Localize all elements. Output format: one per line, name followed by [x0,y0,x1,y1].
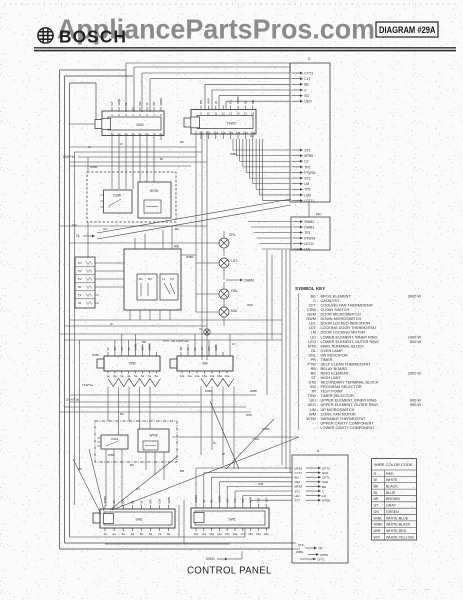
svg-text:W/BL: W/BL [374,516,383,520]
relay board RB [124,245,181,321]
label CSW2a note [163,339,189,343]
svg-text:COOLING FAN THERMOSTAT: COOLING FAN THERMOSTAT [321,304,374,308]
svg-text:W: W [88,145,91,149]
svg-text:BLACK: BLACK [386,484,398,488]
svg-text:UPPER CAVITY COMPONENT: UPPER CAVITY COMPONENT [321,421,375,425]
wire SW top drops [188,334,230,352]
svg-text:WHITE-RED: WHITE-RED [386,529,407,533]
svg-text:14: 14 [237,112,240,116]
svg-text:GY: GY [374,504,380,508]
svg-text:SG: SG [304,94,309,98]
svg-text:W/BK: W/BK [262,427,270,431]
svg-text:BL: BL [244,100,248,104]
svg-text:LEO :: LEO : [308,340,318,344]
svg-text:ST3: ST3 [304,177,310,181]
contacts under SW [201,379,234,387]
svg-text:SYMBOL KEY: SYMBOL KEY [295,286,325,291]
svg-text:R: R [374,472,377,476]
svg-text:BROWN: BROWN [386,497,400,501]
svg-text:GY: GY [250,134,254,138]
svg-text:1a: 1a [103,532,107,536]
svg-text:GY: GY [229,100,233,104]
svg-text:DOOR LOCKED INDICATOR: DOOR LOCKED INDICATOR [321,322,371,326]
svg-text:WTW: WTW [150,434,158,438]
svg-text:W: W [120,142,123,146]
svg-text:PTW :: PTW : [307,362,318,366]
svg-text:15: 15 [244,112,247,116]
svg-text:2a: 2a [113,374,117,378]
wire lamp feeds [70,131,220,312]
svg-text:6a: 6a [141,374,145,378]
wire bundle SW1 to lower right box [196,468,292,504]
svg-text:SELF CLEAN THERMOSTAT: SELF CLEAN THERMOSTAT [321,362,371,366]
svg-text:DAL: DAL [231,309,238,313]
thermostat WTW upper [138,182,171,218]
svg-text:13a: 13a [202,374,207,378]
svg-text:CONTROL PANEL: CONTROL PANEL [187,566,272,577]
svg-text:DSM :: DSM : [307,313,318,317]
svg-text:GN: GN [78,467,82,471]
svg-text:R2: R2 [148,277,152,281]
contacts under TSW [108,379,161,387]
svg-text:SW1: SW1 [228,518,235,522]
svg-text:R1: R1 [139,277,143,281]
svg-text:RE2: RE2 [295,480,301,484]
svg-text:BE: BE [304,83,309,87]
svg-text:MTB5: MTB5 [322,499,331,503]
svg-text:ST1: ST1 [295,489,301,493]
switch CSW upper [100,190,132,213]
svg-text:LDT :: LDT : [309,326,318,330]
svg-text:BK: BK [374,484,379,488]
svg-text:GY: GY [232,342,236,346]
terminal strip left [75,257,99,308]
lamp CRL [219,231,236,256]
svg-text:OL: OL [76,234,80,238]
svg-text:TSW :: TSW : [307,394,318,398]
svg-text:DWM3: DWM3 [244,278,254,282]
svg-text:L1: L1 [162,277,166,281]
svg-text:BK: BK [180,140,184,144]
svg-text:C2: C2 [304,160,308,164]
svg-text:BR: BR [374,497,379,501]
thermostat WTW lower [138,429,169,452]
svg-text:1400 W: 1400 W [408,335,422,339]
wire bottom bus [60,543,294,549]
svg-text:DWM :: DWM : [306,317,318,321]
svg-text:LM7: LM7 [304,247,311,251]
watermark AppliancePartsPros.com [57,14,375,45]
svg-text:GRAY: GRAY [386,504,397,508]
selector TSW [97,343,160,378]
svg-text:ST2: ST2 [298,543,304,547]
caption CONTROL PANEL [187,566,272,577]
svg-text:W/BK: W/BK [103,496,107,504]
svg-text:W/BK: W/BK [205,389,212,393]
svg-text:BL: BL [130,499,134,503]
svg-text:15a: 15a [217,374,222,378]
svg-text:TP2: TP2 [304,165,310,169]
svg-text:RED: RED [386,472,394,476]
svg-text:W/BK: W/BK [374,523,384,527]
pin numbers SW2 top [111,113,162,117]
svg-text:- - :: - - : [312,421,318,425]
svg-text:BK: BK [130,463,134,467]
svg-text:BE: BE [322,485,326,489]
svg-text:P2: P2 [78,277,82,281]
wire left bus L3 [69,83,71,537]
svg-text:MTB3: MTB3 [295,485,303,489]
svg-text:5a: 5a [134,374,138,378]
svg-text:CV: CV [170,277,174,281]
selector SW [170,344,233,378]
svg-text:GN: GN [158,499,162,504]
BOSCH wordmark [59,27,127,47]
svg-text:W/BK: W/BK [186,255,194,259]
svg-text:LOCKING DOOR THERMOSTAT: LOCKING DOOR THERMOSTAT [321,326,378,330]
connector SW1 right half [191,495,269,536]
svg-text:W: W [222,452,225,456]
svg-text:W: W [214,101,218,104]
svg-text:5a: 5a [140,532,144,536]
svg-text:GN: GN [103,227,108,231]
lamp OL small [199,327,210,335]
svg-text:12: 12 [222,112,225,116]
svg-text:PTW34: PTW34 [304,236,315,240]
svg-text:7a: 7a [158,532,162,536]
svg-text:HIGH LIMIT: HIGH LIMIT [321,376,342,380]
node column upper cavity box [290,57,330,202]
svg-text:BK: BK [112,499,116,503]
svg-text:14a: 14a [210,374,215,378]
svg-text:TIMER: TIMER [321,358,333,362]
svg-text:W/R: W/R [246,413,253,417]
svg-text:WHITE-YELLOW: WHITE-YELLOW [386,535,414,539]
svg-text:SW1: SW1 [135,518,142,522]
corner scan marks [398,587,430,592]
wire between bottom connectors [179,500,184,543]
svg-text:BL: BL [124,101,128,105]
svg-text:2500 W: 2500 W [408,372,422,376]
svg-text:RB :: RB : [311,367,318,371]
svg-text:LDT11: LDT11 [304,242,314,246]
svg-text:STB :: STB : [309,381,319,385]
svg-text:GY: GY [110,101,114,105]
svg-text:CRL: CRL [229,233,236,237]
pin numbers TSW2 top [200,112,255,116]
svg-text:16a: 16a [225,374,230,378]
svg-text:WM :: WM : [309,412,318,416]
svg-text:GREEN: GREEN [386,510,399,514]
svg-text:BL: BL [160,157,164,161]
svg-text:DOOR LOCKING MOTOR: DOOR LOCKING MOTOR [321,331,366,335]
wire bottom feeds [70,528,301,549]
svg-text:DWM1: DWM1 [304,225,314,229]
svg-text:DOWN MICROSWITCH: DOWN MICROSWITCH [321,317,362,321]
svg-text:W/Y: W/Y [264,497,268,503]
svg-text:CFT1: CFT1 [317,557,325,561]
svg-text:3a: 3a [122,532,126,536]
svg-text:8a: 8a [167,532,171,536]
svg-text:W/BL: W/BL [117,98,121,106]
svg-text:TIMER SELECTOR: TIMER SELECTOR [321,394,355,398]
svg-text:OVEN LAMP: OVEN LAMP [321,349,344,353]
svg-text:MTB9: MTB9 [304,154,313,158]
svg-text:[2x W/T2a]: [2x W/T2a] [66,398,79,402]
svg-text:19a: 19a [256,532,261,536]
svg-text:W/BL: W/BL [167,496,171,504]
svg-text:8a: 8a [155,374,159,378]
wire SW drops [201,387,234,470]
svg-text:W: W [213,441,216,445]
svg-text:CYT3: CYT3 [304,71,313,75]
node arrows lower right inner [295,466,331,502]
svg-text:CLEAN SWITCH: CLEAN SWITCH [321,308,350,312]
svg-text:P4: P4 [78,269,82,273]
svg-text:W: W [140,501,144,504]
svg-text:SWM2: SWM2 [304,220,314,224]
wire lower cavity drops [106,449,164,506]
svg-text:RELAY BOARD: RELAY BOARD [321,367,348,371]
switch CSW lower [97,435,128,449]
header rule [34,48,456,51]
svg-text:15a: 15a [225,532,230,536]
svg-text:BK: BK [199,100,203,104]
svg-text:BK: BK [152,101,156,105]
svg-text:MTB4: MTB4 [320,553,328,557]
svg-text:7a: 7a [148,374,152,378]
svg-text:CFT1: CFT1 [322,476,330,480]
svg-text:TEST POINT: TEST POINT [321,390,344,394]
svg-text:1a: 1a [106,374,110,378]
lamp ODL [219,282,238,307]
svg-text:13: 13 [229,112,232,116]
svg-text:OF: OF [318,546,322,550]
dashed upper cavity enclosure [87,172,176,222]
svg-text:LOWER ELEMENT, OUTER RING: LOWER ELEMENT, OUTER RING [321,340,379,344]
svg-text:2a: 2a [112,532,116,536]
svg-text:VARIABLE THERMOSTAT: VARIABLE THERMOSTAT [321,417,367,421]
svg-text:W/Y: W/Y [374,535,381,539]
svg-text:3a: 3a [120,374,124,378]
wire left bus L2 [64,76,66,543]
svg-text:W: W [145,103,149,106]
svg-text:LEI :: LEI : [310,335,318,339]
svg-text:W/BK: W/BK [236,96,240,104]
svg-text:CONV. FAN MOTOR: CONV. FAN MOTOR [321,412,356,416]
svg-text:11a: 11a [194,532,199,536]
svg-text:BOSCH: BOSCH [59,27,127,47]
svg-text:ST :: ST : [311,376,318,380]
wire label DMS34 [63,155,88,159]
wire diagonal pair [76,199,291,239]
svg-text:TSW: TSW [128,362,136,366]
wire TSW drops [108,387,150,436]
svg-text:16: 16 [251,112,254,116]
svg-text:LDL :: LDL : [309,322,318,326]
svg-text:PROGRAM SELECTOR: PROGRAM SELECTOR [321,385,362,389]
svg-text:TSW*1a: TSW*1a [82,383,93,387]
svg-text:W: W [110,322,113,326]
wire label DSM1 [206,551,242,561]
svg-text:20a: 20a [264,532,269,536]
svg-text:LDT: LDT [231,259,237,263]
svg-text:S1: S1 [78,301,82,305]
wire left verticals extra [75,152,89,505]
wire SW2 to upper CSW [112,140,154,189]
svg-text:13a: 13a [209,532,214,536]
svg-text:MTB2: MTB2 [295,466,303,470]
lamp DAL [219,307,238,326]
wire bundle to mid arrows [233,139,290,201]
svg-text:WTW: WTW [150,189,159,193]
svg-text:LM :: LM : [311,331,318,335]
svg-text:CATALYST: CATALYST [321,299,340,303]
svg-text:T2: T2 [78,293,82,297]
svg-text:PR: PR [316,213,321,217]
wire mid vertical bundle A [202,131,207,360]
svg-text:4a: 4a [127,374,131,378]
svg-text:RING ELEMENT: RING ELEMENT [321,372,350,376]
svg-text:11: 11 [214,112,217,116]
svg-text:·—: ·— [424,587,430,592]
svg-text:DOOR MICROSWITCH: DOOR MICROSWITCH [321,313,361,317]
svg-text:W/BL: W/BL [92,353,100,357]
svg-text:ODL: ODL [231,289,238,293]
svg-text:600 W: 600 W [410,340,421,344]
svg-text:4a: 4a [131,532,135,536]
svg-text:W/BK: W/BK [90,165,98,169]
svg-text:GN: GN [72,223,77,227]
wire mid vertical extra [267,250,272,395]
svg-text:CFT :: CFT : [309,304,318,308]
svg-text:SCK: SCK [322,471,329,475]
wire mid horizontals [60,147,283,412]
wire DWM3 stub [224,276,254,282]
svg-text:TP3: TP3 [304,231,310,235]
svg-text:DMS*34: DMS*34 [63,155,75,159]
svg-text:W/BK: W/BK [250,389,257,393]
svg-text:MAIN TERMINAL BLOCK: MAIN TERMINAL BLOCK [321,344,365,348]
svg-text:10: 10 [207,112,210,116]
node arrows PR group [293,220,316,252]
connector TSW2 [184,96,256,139]
svg-text:SAE: SAE [322,480,328,484]
svg-text:RE :: RE : [311,372,318,376]
svg-text:W: W [374,478,378,482]
svg-text:(4x CSW*2a): (4x CSW*2a) [171,339,189,343]
svg-text:BL: BL [374,491,378,495]
wire RB top leads [135,226,172,249]
svg-text:CFT3: CFT3 [322,466,330,470]
wire RB to lamp bus stub [181,254,196,256]
wire bundle to PR box [248,222,291,250]
svg-text:C :: C : [313,299,318,303]
svg-text:GN: GN [374,510,380,514]
wire G to PR link [308,202,310,217]
svg-text:11a: 11a [187,374,192,378]
svg-text:ONL :: ONL : [308,353,318,357]
svg-text:LOWER CAVITY COMPONENT: LOWER CAVITY COMPONENT [321,426,376,430]
svg-text:DSM1: DSM1 [206,557,215,561]
lamp LDL [219,258,237,276]
wire TSW top drops [115,334,149,352]
svg-text:CYT2: CYT2 [295,471,303,475]
svg-text:CSW :: CSW : [307,308,318,312]
node arrows bottom OF [296,543,329,561]
svg-text:TP5: TP5 [304,188,310,192]
node arrows upper group [292,71,314,103]
svg-text:GY: GY [121,499,125,503]
node box lower right [292,449,348,563]
wire mid vertical bundle B [282,250,290,473]
svg-text:UM :: UM : [310,408,318,412]
svg-text:W/BK: W/BK [296,550,303,554]
wire diagonal X group [73,401,299,514]
svg-text:UP MICROSWITCH: UP MICROSWITCH [321,408,355,412]
svg-text:18a: 18a [248,532,253,536]
symbol key [295,286,421,430]
svg-text:WHITE-BLUE: WHITE-BLUE [386,516,409,520]
svg-text:3000 W: 3000 W [408,295,422,299]
svg-text:WHITE: WHITE [386,478,398,482]
svg-text:CSW: CSW [113,194,122,198]
svg-text:MTB :: MTB : [308,344,318,348]
svg-text:BK: BK [120,412,124,416]
svg-text:UPPER ELEMENT, INNER RING: UPPER ELEMENT, INNER RING [321,399,377,403]
svg-text:TSW2: TSW2 [226,122,236,126]
svg-text:UPPER ELEMENT, OUTER RING: UPPER ELEMENT, OUTER RING [321,403,379,407]
svg-text:BK: BK [179,346,183,350]
svg-text:PTW34: PTW34 [304,171,315,175]
wire top-left feed [60,70,134,124]
svg-text:W/BL: W/BL [230,152,237,156]
connector SW1 [93,496,175,536]
svg-text:C3: C3 [78,261,82,265]
svg-text:CLT: CLT [304,77,311,81]
svg-text:UEI :: UEI : [310,399,318,403]
svg-text:UEO: UEO [304,100,312,104]
svg-text:W/R: W/R [247,303,254,307]
wire label CSW2a [90,165,98,169]
svg-text:B1: B1 [78,285,82,289]
svg-text:LM: LM [304,182,309,186]
svg-text:Y/GN: Y/GN [252,437,259,441]
svg-text:W/R: W/R [258,482,263,486]
svg-text:WHITE-BLACK: WHITE-BLACK [386,523,411,527]
connector SW2 [95,98,164,140]
svg-text:BLUE: BLUE [386,491,396,495]
wire color code table [372,459,417,541]
DIAGRAM #29A label box [376,22,438,37]
svg-text:OL: OL [199,327,203,331]
svg-text:PR :: PR : [311,358,318,362]
svg-text:ST2: ST2 [304,148,310,152]
node arrows mid group [292,148,316,203]
wire left bus L1 [59,70,61,549]
svg-text:-- :: -- : [313,426,318,430]
svg-text:14a: 14a [217,532,222,536]
svg-text:OL :: OL : [311,349,318,353]
wire label sprinkles [72,134,270,491]
svg-text:W/R: W/R [207,97,211,104]
svg-text:DIAGRAM #29A: DIAGRAM #29A [379,25,436,35]
svg-text:900 W: 900 W [410,399,421,403]
wire strip to RB [99,263,124,287]
svg-text:LM3: LM3 [304,193,311,197]
svg-text:BL1: BL1 [295,476,301,480]
svg-text:BROIL ELEMENT: BROIL ELEMENT [321,295,352,299]
